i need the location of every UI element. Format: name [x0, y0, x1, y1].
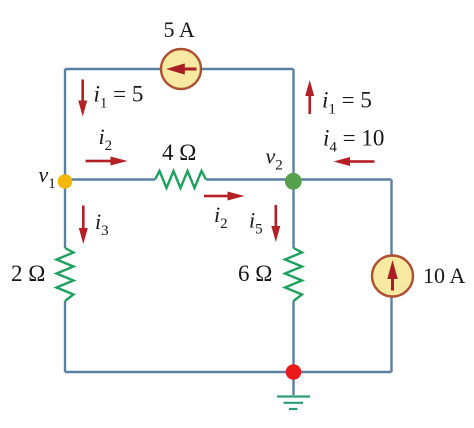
svg-text:6 Ω: 6 Ω [238, 261, 272, 286]
svg-text:10 A: 10 A [423, 263, 465, 288]
svg-text:4 Ω: 4 Ω [162, 140, 196, 165]
svg-text:5 A: 5 A [164, 17, 195, 42]
svg-text:2 Ω: 2 Ω [11, 261, 45, 286]
